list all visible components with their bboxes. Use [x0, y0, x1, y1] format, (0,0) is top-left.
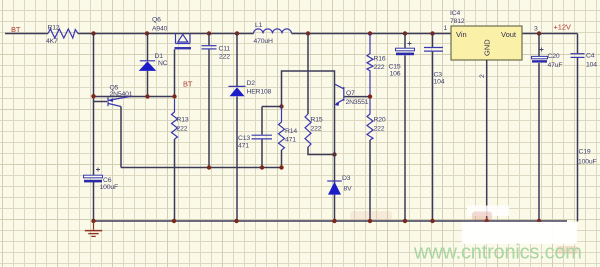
- wire: top rail BT from left edge to R12: [5, 33, 48, 35]
- svg-text:BT: BT: [11, 25, 21, 34]
- junction ground rail at R13: [172, 219, 176, 223]
- svg-text:471: 471: [285, 137, 296, 144]
- junction ground rail at C6: [91, 219, 95, 223]
- capacitor C6 (electrolytic): [84, 168, 103, 183]
- wire: feedback row horizontal: [121, 167, 282, 169]
- svg-text:104: 104: [434, 79, 445, 86]
- svg-text:C6: C6: [103, 177, 112, 184]
- svg-text:D2: D2: [247, 80, 256, 87]
- svg-text:C20: C20: [548, 53, 560, 60]
- wire: Q6 base down to mid node: [174, 49, 176, 96]
- junction snubber top at R14/C13: [279, 104, 283, 108]
- capacitor C13: [252, 135, 273, 139]
- watermark white patch small: [467, 206, 509, 217]
- svg-text:+12V: +12V: [554, 23, 571, 32]
- svg-text:104: 104: [586, 62, 597, 69]
- svg-text:A940: A940: [152, 26, 168, 33]
- svg-text:471: 471: [238, 143, 249, 150]
- transistor Q7: [335, 84, 344, 106]
- capacitor C3: [424, 48, 443, 52]
- wire: top rail to C11: [208, 34, 210, 46]
- wire: Q7 base lead to R16/R20 node: [345, 96, 371, 98]
- svg-text:222: 222: [311, 126, 322, 133]
- svg-text:7812: 7812: [450, 18, 465, 25]
- svg-text:Vin: Vin: [456, 30, 467, 39]
- junction Q7 base / R16 / R20: [368, 94, 372, 98]
- junction ground rail at D2: [234, 219, 238, 223]
- junction ground rail at IC4 GND: [485, 219, 489, 223]
- svg-text:NC: NC: [158, 60, 168, 67]
- svg-text:R12: R12: [48, 25, 60, 32]
- svg-text:47uF: 47uF: [548, 62, 563, 69]
- svg-text:HER108: HER108: [247, 89, 272, 96]
- svg-text:1: 1: [444, 25, 448, 32]
- svg-text:D3: D3: [342, 175, 351, 182]
- wire: D2 anode down to ground rail: [236, 97, 238, 222]
- svg-text:106: 106: [390, 71, 401, 78]
- wire: top rail from L1 to IC4 pin1: [292, 33, 452, 35]
- svg-text:C15: C15: [389, 64, 401, 71]
- svg-text:BT: BT: [183, 80, 193, 89]
- svg-text:Vout: Vout: [501, 30, 517, 39]
- junction feedback row at R14: [279, 165, 283, 169]
- capacitor C4: [571, 54, 585, 58]
- svg-text:C19: C19: [579, 149, 591, 156]
- svg-text:C4: C4: [586, 53, 595, 60]
- ground: [85, 221, 102, 236]
- wire: IC4 GND pin down to ground rail: [486, 60, 488, 221]
- red smudge near IC gnd: [472, 212, 492, 221]
- wire: R13 bottom to ground rail: [174, 139, 176, 221]
- wire: C20 to ground rail: [538, 63, 540, 221]
- wire: R15 bottom, corner to Q7 emitter column: [308, 147, 335, 155]
- wire: C3 to ground rail: [432, 52, 434, 221]
- wire: top rail from R12 to L1: [78, 33, 254, 35]
- junction ground rail at R20: [368, 219, 372, 223]
- svg-text:R14: R14: [285, 128, 297, 135]
- wire: bottom ground rail: [94, 220, 568, 222]
- wire: C4 down to ground rail (C19 column): [577, 58, 579, 222]
- svg-text:C3: C3: [434, 72, 443, 79]
- wire: C15 to ground rail: [404, 55, 406, 221]
- junction mid node at x93: [91, 94, 95, 98]
- wire: snubber row top (281 to 334 corner): [282, 71, 335, 221]
- wire: C11 down to feedback row: [208, 50, 210, 168]
- wire: Q5 collector down to feedback row: [120, 107, 122, 168]
- svg-text:222: 222: [374, 126, 385, 133]
- wire: C13 top lead: [261, 107, 263, 135]
- junction node on top rail at C15: [403, 31, 407, 35]
- wire: C13 bottom to feedback row: [261, 140, 263, 168]
- wire: output rail to C20: [538, 34, 540, 57]
- wire: Q5 base lead: [94, 101, 107, 103]
- junction node on top rail at D2: [235, 31, 239, 35]
- svg-text:222: 222: [177, 126, 188, 133]
- resistor R13: [172, 99, 178, 139]
- svg-text:GND: GND: [483, 39, 492, 56]
- junction mid node at Q6 base / R13: [172, 94, 176, 98]
- diode D1: [139, 61, 157, 71]
- junction node on output rail at C20: [537, 31, 541, 35]
- wire: top rail to D2 cathode: [236, 34, 238, 87]
- junction feedback row at C11: [207, 165, 211, 169]
- transistor Q5: [108, 97, 130, 107]
- svg-text:2N5401: 2N5401: [110, 91, 133, 98]
- op-amp IC4 7812 regulator body: [451, 26, 522, 60]
- wire: switching node down from L1 row (R15 column): [307, 34, 309, 115]
- wire: D1 anode down to mid node: [147, 71, 149, 97]
- svg-text:470uH: 470uH: [254, 38, 274, 45]
- junction ground rail at C3: [430, 219, 434, 223]
- wire: R14 bottom to feedback row: [281, 150, 283, 168]
- svg-text:R15: R15: [311, 117, 323, 124]
- capacitor C11: [202, 46, 217, 49]
- wire: top rail to C15: [404, 34, 406, 49]
- diode D3 (zener): [327, 181, 342, 195]
- resistor R16: [367, 34, 373, 95]
- svg-text:C13: C13: [238, 135, 250, 142]
- junction node on top rail at R16: [368, 31, 372, 35]
- wire: mid node horizontal (Q5/D1/Q6 base row): [94, 96, 175, 98]
- junction node on top rail at R15: [306, 31, 310, 35]
- svg-text:2N3551: 2N3551: [346, 99, 369, 106]
- svg-text:222: 222: [219, 54, 230, 61]
- svg-text:100uF: 100uF: [578, 159, 597, 166]
- inductor L1: [254, 29, 292, 34]
- svg-text:www.cntronics.com: www.cntronics.com: [413, 242, 582, 264]
- junction mid node at D1: [145, 94, 149, 98]
- wire: top rail to D1 cathode: [147, 34, 149, 61]
- resistor R12: [48, 29, 78, 38]
- svg-text:222: 222: [374, 64, 385, 71]
- resistor R15: [305, 114, 311, 147]
- junction feedback row at C13: [260, 165, 264, 169]
- capacitor C20 (electrolytic): [532, 48, 548, 63]
- transistor Q6 body (pass transistor bars, triangle, base plate): [175, 34, 192, 50]
- svg-text:100uF: 100uF: [100, 184, 119, 191]
- junction node on top rail at D1: [145, 31, 149, 35]
- junction node on top rail at C3: [430, 31, 434, 35]
- wire: +12V corner down to C4: [577, 34, 579, 54]
- watermark white box main: [462, 222, 577, 244]
- red smudge over .com: [556, 246, 578, 254]
- wire: top rail to C3: [432, 34, 434, 48]
- junction ground rail at C15: [403, 219, 407, 223]
- svg-text:Q6: Q6: [152, 17, 161, 24]
- svg-text:4K7: 4K7: [46, 38, 58, 45]
- svg-text:D1: D1: [155, 53, 164, 60]
- capacitor C15 (electrolytic): [396, 42, 415, 56]
- svg-text:IC4: IC4: [450, 10, 460, 17]
- resistor R14: [279, 107, 285, 151]
- wire: R20 bottom to ground rail: [369, 140, 371, 221]
- svg-text:8V: 8V: [344, 186, 353, 193]
- junction ground rail at D3: [332, 219, 336, 223]
- svg-text:2: 2: [479, 74, 486, 78]
- svg-text:3: 3: [534, 26, 538, 33]
- wire: IC4 pin3 output to +12V corner: [522, 33, 578, 35]
- svg-text:C11: C11: [219, 46, 231, 53]
- wire: vertical from top rail through C6 to ground rail: [93, 34, 95, 176]
- resistor R20: [367, 99, 373, 140]
- svg-text:R13: R13: [177, 117, 189, 124]
- wire: horizontal to C13: [262, 106, 282, 108]
- red smudge mid rail: [350, 211, 392, 220]
- junction node on top rail at C11: [207, 31, 211, 35]
- junction at R15 / D3 column: [332, 152, 336, 156]
- diode D2: [229, 86, 246, 96]
- junction ground rail at C20: [537, 219, 541, 223]
- svg-text:L1: L1: [255, 22, 263, 29]
- junction node on top rail at C6: [91, 31, 95, 35]
- svg-text:R20: R20: [374, 117, 386, 124]
- svg-text:R16: R16: [374, 56, 386, 63]
